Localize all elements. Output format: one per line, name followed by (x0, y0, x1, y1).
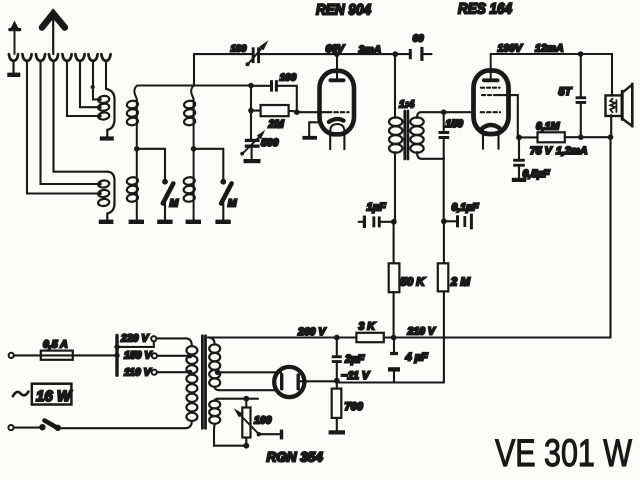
AF transformer right winding (410, 112, 474, 159)
RES164 screen grid (dashed) (481, 87, 500, 89)
capacitor 4uF (388, 338, 400, 383)
terminal 220V (151, 336, 156, 341)
svg-text:0,5 A: 0,5 A (43, 339, 68, 351)
junction 2M left (248, 108, 254, 114)
REN904 grid (dashed) (328, 111, 349, 113)
junction 5T bottom (578, 134, 584, 140)
wire junction to switch M1 (137, 149, 165, 180)
svg-text:190V: 190V (498, 43, 524, 55)
resistor 2M anode (438, 221, 449, 382)
REN904 chassis stub (302, 122, 318, 139)
wire speaker bottom lead (610, 115, 612, 137)
junction 210V node (391, 335, 397, 341)
svg-text:0,1µF: 0,1µF (452, 202, 480, 214)
RES164 anode plate and lead (484, 54, 498, 80)
svg-text:0,1M: 0,1M (536, 121, 560, 133)
switch M1 contact (162, 179, 168, 185)
wire socket4 to lower coil top (54, 60, 109, 171)
svg-text:4 µF: 4 µF (405, 352, 429, 364)
power transformer HT secondary (208, 337, 220, 390)
wire top rail middle (260, 53, 409, 55)
RGN354 left electrode (280, 375, 283, 389)
REN904 anode plate and lead (330, 54, 343, 80)
junction primary tap 150V (187, 353, 192, 358)
capacitor 0,1uF (444, 214, 473, 230)
mains terminal upper (9, 353, 14, 358)
capacitor 60 (409, 47, 432, 61)
junction pot top (243, 396, 249, 402)
wire socket2 to lower coil tap2 (27, 60, 99, 193)
ground below coil L3b (186, 220, 201, 224)
svg-text:150 V: 150 V (124, 350, 152, 362)
resistor 0,1M (519, 132, 611, 142)
wire to mains switch (14, 427, 40, 429)
socket jack 2 (22, 54, 31, 61)
svg-text:60: 60 (413, 34, 425, 45)
socket jack 1 (9, 54, 18, 61)
junction HT tap (215, 370, 221, 376)
svg-text:1,2mA: 1,2mA (556, 145, 588, 157)
wire node down to trimmer 500 (250, 86, 252, 139)
socket jack 6 (75, 54, 84, 61)
antenna small auxiliary (10, 21, 20, 55)
socket jack 3 (36, 54, 45, 61)
junction 260V node (334, 335, 340, 341)
wire 220V terminal to transformer (156, 337, 186, 339)
svg-text:1µF: 1µF (367, 202, 386, 214)
junction blob on socket7 wire (91, 85, 95, 89)
wire 150V terminal to transformer (157, 355, 190, 357)
junction primary tap 110V (187, 370, 192, 375)
grid capacitor 100 (251, 80, 297, 112)
RES164 cathode filament (482, 125, 500, 149)
ground below coil L2b (129, 220, 144, 224)
junction grid RES164 node (441, 109, 447, 115)
socket jack 8 (101, 54, 110, 61)
junction coil L3a bottom (191, 146, 197, 152)
resistor 700 (332, 381, 342, 431)
resistor 3K (356, 333, 383, 342)
AF transformer core (405, 111, 408, 159)
wire junction to switch M2 (194, 149, 224, 180)
rectifier RGN354 envelope (274, 367, 304, 397)
junction selector fuse (114, 353, 119, 358)
svg-text:700: 700 (345, 401, 364, 413)
wire rectifier output (298, 380, 337, 382)
svg-text:110 V: 110 V (124, 367, 152, 379)
RES164 grid 2 row with lead to 75V node (482, 95, 518, 136)
wire socket5 to upper coil tap3 (67, 60, 98, 116)
terminal 110V (152, 370, 157, 375)
potentiometer 100 (234, 399, 261, 446)
svg-text:M: M (228, 198, 237, 210)
junction 5T branch (578, 51, 584, 57)
antenna coil L1 lower body (97, 172, 114, 220)
junction -11V node (334, 378, 340, 384)
socket jack 5 (62, 54, 71, 61)
svg-text:12mA: 12mA (535, 43, 564, 55)
svg-text:220 V: 220 V (120, 333, 149, 345)
svg-text:M: M (170, 198, 179, 210)
wire socket7 to upper coil tap1 (93, 60, 98, 99)
svg-text:3mA: 3mA (359, 44, 382, 56)
tetrode RES164 envelope (474, 71, 509, 135)
pot wiper to chassis (259, 430, 283, 440)
wire top rail left (194, 53, 252, 55)
wire 190V rail (491, 54, 612, 95)
terminal 150V (152, 353, 157, 358)
svg-text:3 K: 3 K (359, 321, 377, 333)
capacitor 150 (439, 112, 450, 221)
junction grid node (294, 109, 300, 115)
svg-text:16 W: 16 W (36, 388, 73, 405)
RES164 control grid (dashed) (481, 111, 501, 113)
capacitor 1uF (359, 216, 394, 228)
wire coil tops to grid cap node (138, 84, 252, 86)
junction coil L2a bottom (134, 146, 140, 152)
svg-text:100: 100 (280, 73, 297, 84)
ground below L1 upper (100, 136, 114, 140)
switch M1 lower lead (164, 202, 166, 220)
triode REN904 envelope (320, 71, 355, 135)
coil L3a (upper right of group) (184, 86, 196, 149)
resistor 50K (389, 222, 400, 338)
coil L3b (lower) (183, 149, 195, 220)
wire 210V rail right (384, 336, 611, 338)
wire -11V line (337, 381, 444, 383)
antenna coil L1 upper body (97, 89, 114, 136)
svg-text:50 K: 50 K (400, 277, 425, 289)
ground below L1 lower (99, 220, 114, 224)
switch M2 lower lead (222, 202, 224, 220)
wire switch to transformer primary bottom (60, 427, 185, 429)
mains switch contact right (55, 425, 61, 431)
junction 0,1uF node (441, 218, 447, 224)
capacitor 2uF (332, 338, 342, 381)
trimmer capacitor 180 (246, 40, 269, 66)
wire socket6 to upper coil tap2 (80, 60, 98, 107)
svg-text:1:4: 1:4 (399, 99, 414, 111)
power rating box 16W (32, 384, 73, 405)
svg-text:RGN 354: RGN 354 (267, 450, 324, 465)
junction 75V node (516, 135, 522, 141)
socket jack 4 (49, 54, 58, 61)
svg-text:500: 500 (261, 137, 279, 149)
junction coil node (248, 83, 254, 89)
AF transformer 1:4 left winding (389, 54, 402, 222)
wire 260V/210V rail (208, 336, 356, 338)
svg-text:5T: 5T (559, 86, 573, 98)
wire socket3 to lower coil tap1 (41, 60, 100, 184)
svg-text:−11 V: −11 V (341, 370, 371, 382)
coil L2b (lower left) (126, 149, 138, 220)
wire right side down to 210V rail (609, 137, 611, 337)
svg-text:0,5µF: 0,5µF (523, 168, 551, 180)
wire top rail corner down to coil wire (193, 54, 195, 85)
antenna main arrow (42, 14, 65, 55)
svg-text:2M: 2M (268, 119, 285, 131)
svg-text:RES 164: RES 164 (458, 1, 513, 18)
wire HT bottom to rectifier (219, 389, 276, 391)
svg-text:150: 150 (446, 118, 464, 130)
switch M2 contact (220, 179, 226, 185)
wire HT tap to rectifier (218, 371, 281, 373)
wire to fuse (14, 354, 117, 356)
junction 1uF node (391, 219, 397, 225)
svg-text:260 V: 260 V (297, 326, 326, 338)
svg-text:REN 904: REN 904 (316, 2, 372, 19)
ground below switch M2 (215, 220, 230, 224)
svg-text:2 M: 2 M (450, 277, 471, 289)
mains terminal lower (8, 425, 13, 430)
fuse 0,5A (41, 351, 73, 360)
junction anode REN904 at rail (334, 51, 340, 57)
junction speaker bottom (608, 134, 614, 140)
capacitor 5T (576, 54, 587, 137)
svg-text:75 V: 75 V (530, 145, 553, 157)
svg-text:180: 180 (231, 44, 248, 55)
ground below 700 (329, 430, 345, 434)
power transformer primary winding (185, 338, 197, 428)
REN904 cathode filament (329, 119, 345, 149)
switch M1 blade (163, 183, 174, 203)
svg-text:100: 100 (254, 415, 272, 427)
svg-text:VE 301 W: VE 301 W (495, 432, 633, 475)
trimmer capacitor 500 (240, 130, 265, 159)
capacitor 0,5uF (512, 137, 526, 182)
wire selector to 220V terminal (117, 341, 154, 347)
wire 110V terminal to transformer (157, 371, 190, 373)
loudspeaker (606, 84, 633, 127)
svg-text:60V: 60V (326, 43, 346, 55)
RGN354 right electrode (297, 375, 300, 389)
mains switch blade (45, 421, 58, 429)
junction selector 220V (114, 344, 119, 349)
ground below switch M1 (157, 220, 172, 224)
grid leak resistor 2M (251, 105, 297, 116)
ground below trimmer 500 (244, 159, 261, 163)
junction pot bottom (243, 443, 249, 449)
mains switch contact left (39, 424, 45, 430)
power transformer filament winding (209, 399, 258, 446)
socket jack 7 (88, 54, 97, 61)
ground below socket 1 (7, 61, 20, 78)
AC tilde symbol (13, 392, 29, 397)
voltage selector bar (115, 336, 118, 376)
svg-text:210 V: 210 V (407, 326, 436, 338)
wire socket8 to upper coil top (105, 60, 107, 89)
svg-text:2µF: 2µF (344, 354, 364, 366)
switch M2 blade (221, 183, 232, 203)
wire grid REN904 to node (297, 111, 328, 113)
power transformer core (202, 336, 205, 429)
tuning coil L2a (upper left) (126, 86, 138, 149)
junction rail to AF transformer (392, 51, 398, 57)
